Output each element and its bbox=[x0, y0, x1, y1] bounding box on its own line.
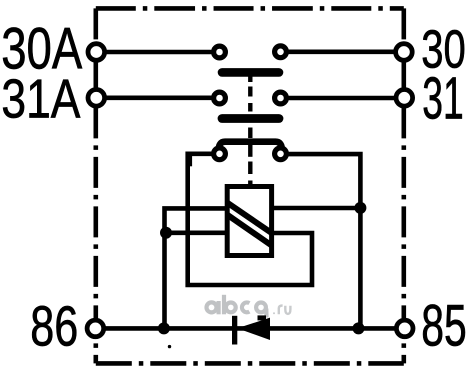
svg-text:86: 86 bbox=[30, 295, 78, 359]
svg-text:31A: 31A bbox=[1, 67, 80, 129]
svg-text:85: 85 bbox=[421, 293, 467, 358]
svg-text:31: 31 bbox=[422, 66, 464, 132]
